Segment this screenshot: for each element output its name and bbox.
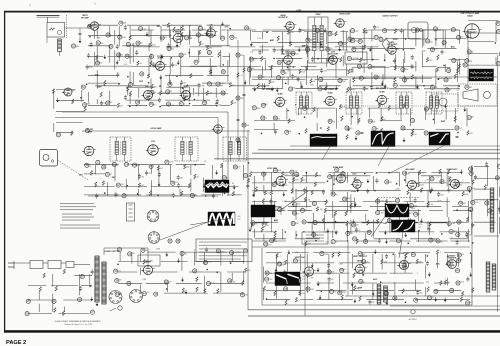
wire xyxy=(444,252,459,254)
capacitor s63n16 xyxy=(407,218,410,223)
wire xyxy=(474,235,499,237)
wire xyxy=(137,165,139,180)
part s11n18 xyxy=(442,41,446,45)
value label xyxy=(93,23,98,25)
wire xyxy=(292,172,294,194)
svg-text:680: 680 xyxy=(281,209,284,211)
wire xyxy=(448,59,466,61)
tube V1 RF AMP xyxy=(88,22,101,31)
wire xyxy=(192,29,210,31)
wire xyxy=(109,45,111,63)
part s11n11 xyxy=(358,39,362,43)
wire xyxy=(150,78,152,85)
capacitor s37n10 xyxy=(498,207,500,212)
resistor s13n10 xyxy=(184,164,190,169)
wire xyxy=(84,185,115,187)
svg-text:220K: 220K xyxy=(156,249,161,251)
part s13n5 xyxy=(124,162,132,166)
svg-text:OSC: OSC xyxy=(209,27,214,29)
resistor s31n25 xyxy=(381,259,388,264)
wire xyxy=(285,175,300,177)
wire xyxy=(424,265,426,278)
capacitor s11n61 xyxy=(349,86,356,91)
value label xyxy=(276,105,281,107)
coil s7n25 xyxy=(261,56,263,61)
ground xyxy=(463,107,466,112)
part s37n9 xyxy=(488,209,492,213)
notes text line 7 xyxy=(60,225,100,226)
svg-text:47: 47 xyxy=(461,222,463,224)
response curve photo F xyxy=(429,132,450,145)
resistor between E and F xyxy=(411,132,417,137)
wire xyxy=(349,30,351,43)
wire xyxy=(252,182,278,184)
capacitor s7n43 xyxy=(297,77,300,82)
svg-text:AMP: AMP xyxy=(441,120,446,123)
junction xyxy=(423,85,425,87)
response curve photo D xyxy=(310,134,337,147)
wire xyxy=(309,200,328,202)
svg-text:.005: .005 xyxy=(144,250,148,252)
wire xyxy=(180,83,182,94)
wire xyxy=(140,268,142,275)
junction xyxy=(266,32,268,34)
ground xyxy=(249,227,252,232)
wire xyxy=(220,272,222,292)
wire xyxy=(442,30,444,46)
part s19n99 xyxy=(302,220,308,224)
svg-text:AGC AMP: AGC AMP xyxy=(405,168,415,171)
coil s13n28 xyxy=(95,182,97,187)
wire xyxy=(222,55,230,57)
svg-text:SYNC: SYNC xyxy=(351,191,357,193)
tube V20 SYNC AMP xyxy=(334,174,347,183)
wire xyxy=(56,89,76,91)
svg-text:.047: .047 xyxy=(210,282,214,284)
capacitor s19n91 xyxy=(406,211,412,216)
coil s19n115 xyxy=(274,231,276,236)
svg-text:1.5M: 1.5M xyxy=(387,202,391,204)
trap label speck xyxy=(315,13,321,16)
coil s7n57 xyxy=(347,87,349,92)
wire xyxy=(227,30,229,47)
tube V5 2ND IF xyxy=(179,87,192,100)
tone control box xyxy=(345,52,367,64)
wire xyxy=(295,189,297,200)
resistor s19n15 xyxy=(419,170,424,175)
resistor s19n23 xyxy=(293,177,300,182)
coil s17n10 xyxy=(388,106,390,111)
wire xyxy=(28,299,52,301)
wire xyxy=(161,55,183,57)
capacitor s61n9 xyxy=(167,43,170,48)
junction xyxy=(148,82,150,84)
junction xyxy=(333,183,335,185)
svg-text:120: 120 xyxy=(350,128,353,130)
junction xyxy=(292,204,294,206)
coil s29n35 xyxy=(182,288,184,293)
junction xyxy=(472,242,474,244)
wire xyxy=(417,231,419,242)
wire xyxy=(352,283,354,294)
svg-text:1.5M: 1.5M xyxy=(136,165,141,167)
wire xyxy=(390,222,418,224)
part s3n90 xyxy=(221,91,229,96)
ground xyxy=(185,290,188,295)
svg-text:680: 680 xyxy=(444,182,447,184)
capacitor s13n23 xyxy=(177,175,184,180)
stage label AUDIO OUTPUT xyxy=(382,15,398,18)
wire xyxy=(342,30,344,50)
alignment note line 5 xyxy=(199,255,247,256)
tube V15 ratio det xyxy=(212,125,225,133)
svg-text:47: 47 xyxy=(358,230,360,232)
alignment note line 3 xyxy=(199,248,247,249)
svg-text:2.2M: 2.2M xyxy=(303,180,307,182)
wire xyxy=(327,69,348,71)
wire xyxy=(150,165,152,174)
svg-text:680: 680 xyxy=(120,55,123,57)
svg-text:120: 120 xyxy=(174,65,177,67)
svg-text:.047: .047 xyxy=(317,221,321,223)
resistor s41n8 xyxy=(71,131,73,136)
part s3n79 xyxy=(168,82,172,86)
part s19n141 xyxy=(364,239,368,243)
wire xyxy=(205,45,230,47)
interlock pictorial box xyxy=(408,22,428,39)
wire xyxy=(138,88,140,98)
capacitor s11n63 xyxy=(370,85,373,90)
capacitor s3n80 xyxy=(180,80,186,85)
junction xyxy=(335,221,337,223)
junction xyxy=(261,133,263,135)
wire xyxy=(118,52,120,61)
wire xyxy=(389,217,391,233)
svg-text:47: 47 xyxy=(460,128,462,130)
wire xyxy=(446,172,448,187)
resistor s31n14 xyxy=(436,250,441,255)
wire xyxy=(402,206,441,208)
wire xyxy=(162,29,186,31)
resistor s19n28 xyxy=(354,177,360,182)
capacitor s3n37 xyxy=(87,53,90,58)
part on agc line xyxy=(236,53,245,57)
capacitor s11n47 xyxy=(411,64,417,69)
coil s63n5 xyxy=(255,187,257,192)
balun box xyxy=(47,23,65,38)
wire xyxy=(292,197,294,205)
junction xyxy=(435,39,437,41)
resistor s19n4 xyxy=(282,172,289,177)
wire xyxy=(263,203,265,224)
capacitor s19n22 xyxy=(282,182,288,187)
svg-text:470K: 470K xyxy=(128,57,133,59)
wire xyxy=(408,172,427,174)
resistor s3n38 xyxy=(96,55,98,60)
svg-text:1.5M: 1.5M xyxy=(440,194,444,196)
part on agc line xyxy=(237,73,243,78)
leader from H xyxy=(399,232,403,258)
part s19n9 xyxy=(341,172,345,176)
part s31n7 xyxy=(358,252,366,257)
part s19n100 xyxy=(313,220,320,224)
capacitor s11n3 xyxy=(373,25,380,30)
focus control box xyxy=(432,94,458,111)
stage label xyxy=(405,168,415,171)
part s31n58 xyxy=(456,281,465,285)
wire xyxy=(182,35,216,37)
wire xyxy=(384,262,424,264)
wire xyxy=(84,163,119,165)
svg-text:.02: .02 xyxy=(387,30,390,32)
wire xyxy=(212,165,214,179)
part s31n4 xyxy=(320,251,329,256)
wire xyxy=(299,254,301,271)
bus wire bottom 2 xyxy=(390,305,500,307)
wire xyxy=(316,108,318,118)
wire xyxy=(207,75,229,77)
wire xyxy=(429,176,431,192)
resistor s19n17 xyxy=(448,169,450,174)
part s19n132 xyxy=(456,233,460,237)
capacitor s13n20 xyxy=(138,174,144,179)
svg-text:100: 100 xyxy=(88,166,91,168)
svg-text:470K: 470K xyxy=(433,48,438,50)
ground xyxy=(317,268,320,273)
part s3n15 xyxy=(106,33,113,37)
wire xyxy=(56,111,84,113)
wire xyxy=(169,58,171,74)
part s13n4 xyxy=(112,162,119,166)
svg-text:270K: 270K xyxy=(207,261,212,263)
junction xyxy=(443,65,445,67)
wire xyxy=(81,285,92,287)
wire xyxy=(423,29,452,31)
resistor s3n68 xyxy=(190,73,192,78)
svg-text:100: 100 xyxy=(200,35,203,37)
capacitor s31n73 xyxy=(416,290,422,295)
stage label xyxy=(358,286,363,289)
wire xyxy=(435,69,437,88)
wire xyxy=(166,46,180,48)
wire xyxy=(313,252,350,254)
wire xyxy=(204,185,239,187)
part s19n119 xyxy=(312,233,319,238)
wire xyxy=(189,30,191,39)
part s19n67 xyxy=(343,197,350,201)
part s7n45 xyxy=(319,77,323,81)
capacitor s7n28 xyxy=(311,57,314,62)
wire xyxy=(368,108,370,118)
svg-text:AMP: AMP xyxy=(274,219,279,222)
coil s17n20 xyxy=(341,116,343,121)
part s31n95 xyxy=(466,301,474,305)
part s29n23 xyxy=(127,281,131,285)
wire xyxy=(89,274,91,287)
wire xyxy=(157,92,184,94)
wire xyxy=(252,78,269,80)
wire xyxy=(495,22,497,42)
wire xyxy=(288,210,313,212)
resistor s11n51 xyxy=(353,78,355,83)
svg-text:1M: 1M xyxy=(241,98,244,100)
svg-text:100: 100 xyxy=(355,225,358,227)
svg-text:.1: .1 xyxy=(417,273,419,275)
part s31n45 xyxy=(265,277,274,281)
wire xyxy=(434,37,466,39)
wire xyxy=(189,46,221,48)
wire xyxy=(188,48,190,57)
wire xyxy=(384,54,386,62)
junction xyxy=(458,85,460,87)
wire xyxy=(126,86,155,88)
wire xyxy=(204,276,206,292)
part s31n32 xyxy=(265,271,272,275)
wire xyxy=(254,176,256,197)
capacitor s19n61 xyxy=(269,199,276,204)
wire xyxy=(330,190,359,192)
resistor s29n37 xyxy=(204,289,206,294)
wire xyxy=(314,78,348,80)
resistor s61n16 xyxy=(458,64,460,69)
stage label xyxy=(274,219,279,222)
wire xyxy=(306,32,308,40)
part s3n24 xyxy=(221,36,225,40)
part s31n52 xyxy=(359,279,365,284)
wire xyxy=(252,240,286,242)
svg-text:©Howard W. Sams & Co., Inc. 19: ©Howard W. Sams & Co., Inc. 1953 xyxy=(64,323,93,326)
stage label xyxy=(186,85,189,87)
wire xyxy=(499,200,500,214)
value label xyxy=(338,264,343,266)
junction xyxy=(315,240,317,242)
wire xyxy=(307,221,345,223)
junction xyxy=(380,281,382,283)
caption line 1 xyxy=(55,320,101,323)
part s19n76 xyxy=(459,201,467,205)
value label xyxy=(421,50,426,52)
stage label xyxy=(373,278,378,281)
wire xyxy=(261,45,263,54)
wire xyxy=(379,231,402,233)
resistor s29n21 xyxy=(245,268,252,273)
svg-text:.01: .01 xyxy=(462,254,465,256)
wire xyxy=(370,206,389,208)
resistor s31n47 xyxy=(299,278,301,283)
part s31n88 xyxy=(393,296,397,300)
resistor s61n17 xyxy=(151,84,157,89)
junction xyxy=(159,85,161,87)
wire xyxy=(367,47,385,49)
resistor s7n1 xyxy=(287,30,294,35)
wire xyxy=(354,272,387,274)
svg-text:.01: .01 xyxy=(171,48,174,50)
svg-text:100: 100 xyxy=(440,242,443,244)
resistor s13n32 xyxy=(138,183,144,188)
junction xyxy=(327,180,329,182)
svg-text:2.2M: 2.2M xyxy=(383,262,387,264)
ground xyxy=(215,170,218,175)
wire xyxy=(468,64,498,66)
svg-text:470K: 470K xyxy=(127,164,132,166)
capacitor s3n42 xyxy=(135,50,138,55)
junction xyxy=(470,252,472,254)
wire xyxy=(404,52,406,63)
stage label xyxy=(145,86,152,88)
terminal strip xyxy=(127,203,135,221)
trap label speck 2 xyxy=(296,9,302,12)
svg-text:.047: .047 xyxy=(425,180,429,182)
junction xyxy=(248,162,250,164)
svg-text:1ST AUDIO: 1ST AUDIO xyxy=(387,43,398,46)
part s61n18 xyxy=(207,82,211,86)
ground xyxy=(56,98,59,103)
svg-text:RATIO DET: RATIO DET xyxy=(328,53,339,56)
capacitor s19n80 xyxy=(271,207,278,212)
capacitor s61n11 xyxy=(361,45,364,50)
part s29n3 xyxy=(141,248,148,252)
wire xyxy=(332,176,334,195)
tube V10 xyxy=(326,52,339,65)
svg-text:.1: .1 xyxy=(279,256,281,258)
wire xyxy=(295,231,297,238)
wire xyxy=(227,271,244,273)
junction xyxy=(80,97,82,99)
wire xyxy=(58,312,89,314)
junction xyxy=(273,58,275,60)
part s31n16 xyxy=(457,253,464,257)
ground between E and F xyxy=(403,138,406,143)
wire xyxy=(427,221,429,230)
svg-text:220K: 220K xyxy=(421,50,426,52)
svg-text:2.2M: 2.2M xyxy=(200,85,204,87)
coil s63n10 xyxy=(350,203,352,208)
section box bottom edge xyxy=(262,304,472,306)
junction xyxy=(396,183,398,185)
wire xyxy=(278,41,321,43)
ground xyxy=(319,295,322,300)
part s19n83 xyxy=(300,208,308,212)
svg-text:2.2M: 2.2M xyxy=(301,30,305,32)
ground xyxy=(389,130,392,135)
ground xyxy=(253,87,256,92)
part s13n14 xyxy=(233,165,241,169)
part s7n13 xyxy=(339,42,347,47)
ground xyxy=(327,228,330,233)
part s19n104 xyxy=(352,223,359,227)
bus wire bottom 4 xyxy=(248,315,500,317)
wire xyxy=(150,30,152,42)
wire xyxy=(305,172,307,183)
junction xyxy=(399,231,401,233)
svg-text:120: 120 xyxy=(460,37,463,39)
wire xyxy=(380,108,382,121)
resistor s31n57 xyxy=(445,280,451,285)
wire xyxy=(438,66,450,68)
wire xyxy=(259,46,284,48)
resistor s31n77 xyxy=(462,291,464,296)
part s11n10 xyxy=(351,39,358,43)
capacitor s11n36 xyxy=(393,58,396,63)
wire xyxy=(137,189,139,196)
wire xyxy=(300,29,322,31)
part s3n5 xyxy=(138,27,146,32)
capacitor s31n22 xyxy=(327,263,330,268)
part s11n40 xyxy=(452,58,459,62)
part between E and F xyxy=(401,126,405,130)
resistor s19n112 xyxy=(467,217,469,222)
wire xyxy=(325,206,361,208)
